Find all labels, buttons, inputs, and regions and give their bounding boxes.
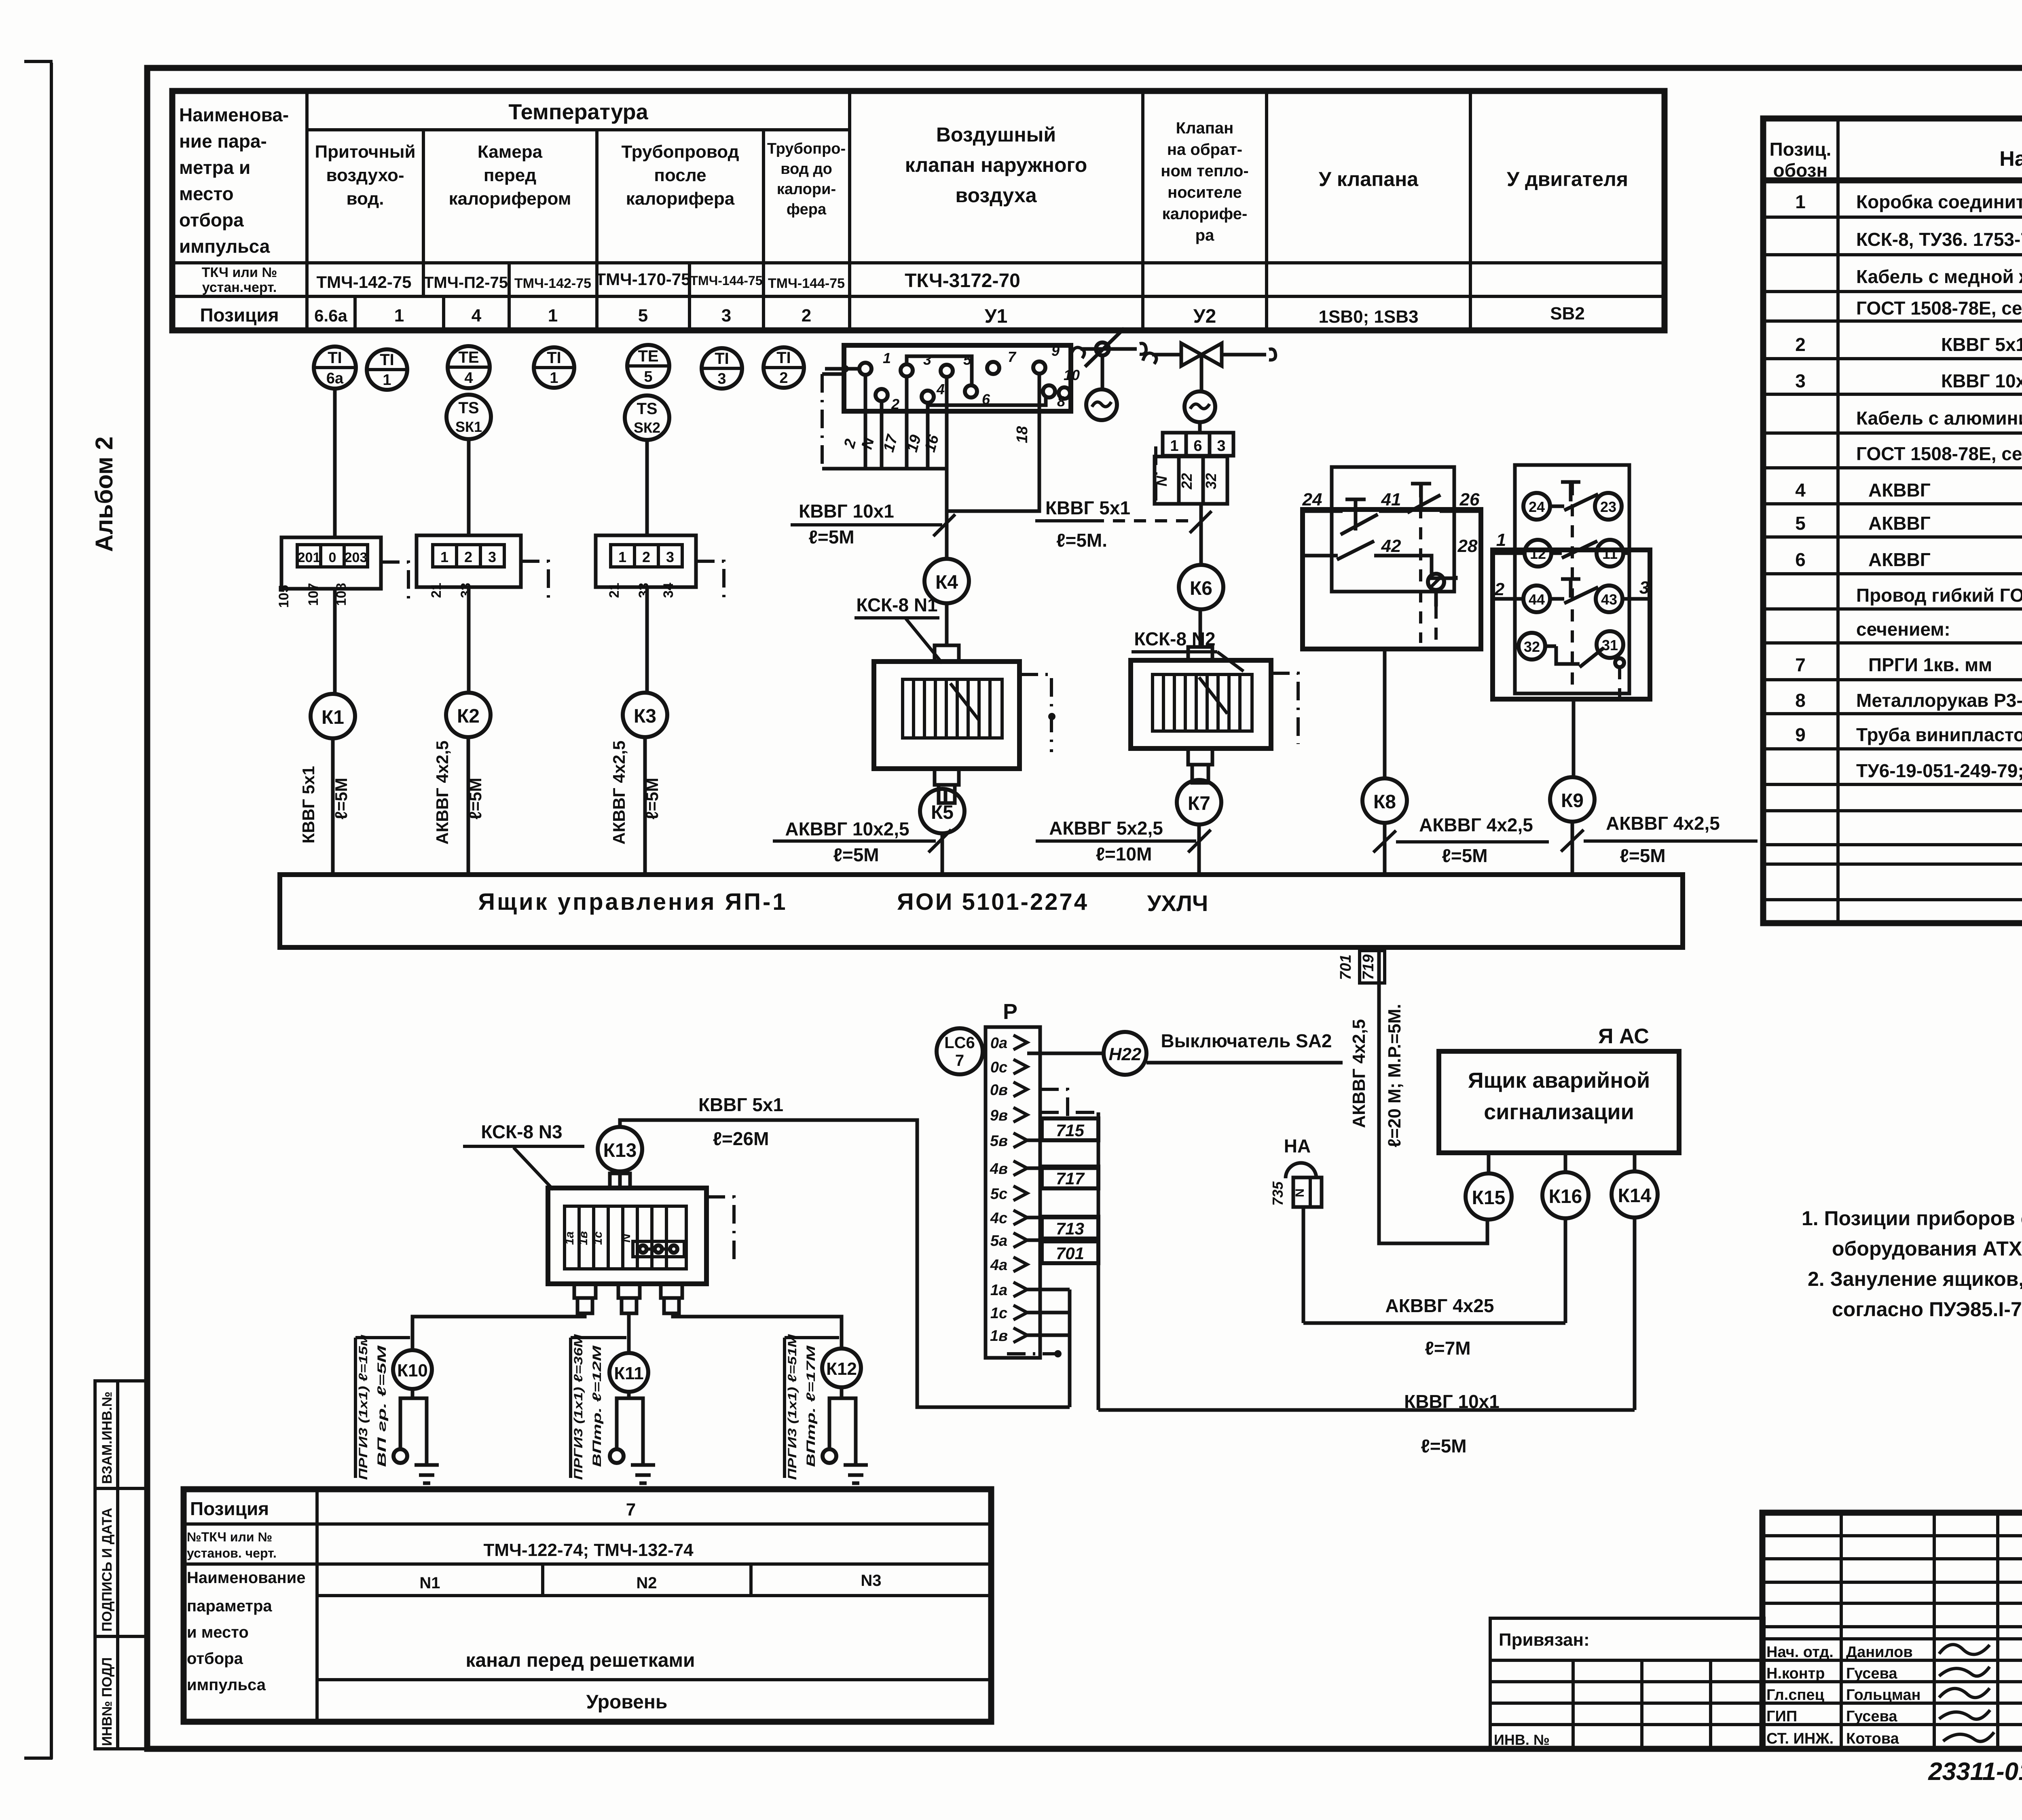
svg-text:2: 2 <box>891 396 899 412</box>
svg-text:Камера: Камера <box>478 142 543 162</box>
svg-text:ТS: ТS <box>637 400 657 418</box>
svg-text:место: место <box>179 183 234 204</box>
svg-text:9: 9 <box>1795 724 1806 745</box>
svg-text:калорифера: калорифера <box>626 189 735 209</box>
svg-text:23311-01 56: 23311-01 56 <box>1928 1758 2022 1786</box>
svg-text:на обрат-: на обрат- <box>1167 141 1242 159</box>
svg-text:5: 5 <box>638 306 648 326</box>
svg-text:АКВВГ 4х2,5: АКВВГ 4х2,5 <box>1419 814 1533 835</box>
cable flag K11 <box>571 1334 626 1480</box>
svg-text:ТЕ: ТЕ <box>458 349 479 366</box>
svg-text:Н.контр: Н.контр <box>1766 1665 1825 1682</box>
svg-text:2: 2 <box>642 549 650 565</box>
svg-text:31: 31 <box>1602 637 1618 653</box>
horn HA <box>1269 1135 1322 1323</box>
svg-text:0а: 0а <box>990 1035 1007 1052</box>
ТКЧ row bottom <box>172 295 1665 298</box>
svg-text:сигнализации: сигнализации <box>1484 1100 1634 1124</box>
svg-text:У1: У1 <box>985 306 1008 327</box>
svg-text:2: 2 <box>802 306 811 326</box>
svg-text:Наименова-: Наименова- <box>179 104 289 125</box>
svg-text:201: 201 <box>298 550 321 565</box>
wires YaAS to K15 K16 K14 <box>1489 1153 1635 1173</box>
bottom-left table <box>184 1489 991 1722</box>
svg-text:3: 3 <box>923 351 931 368</box>
wire K5 to YaP1 <box>941 833 944 875</box>
svg-text:11: 11 <box>1602 545 1618 562</box>
cable flag K10 <box>355 1334 410 1480</box>
svg-text:4с: 4с <box>990 1210 1007 1227</box>
svg-text:ИНВ. №: ИНВ. № <box>1494 1731 1550 1748</box>
позиция row dividers <box>353 296 357 330</box>
svg-text:обозн: обозн <box>1773 160 1828 181</box>
svg-text:Ящик управления ЯП-1: Ящик управления ЯП-1 <box>478 889 787 915</box>
svg-text:КСК-8 N1: КСК-8 N1 <box>856 594 937 615</box>
sensor TS-SK1 <box>446 395 491 439</box>
svg-text:3: 3 <box>488 549 496 565</box>
relay K7 <box>1177 780 1221 824</box>
svg-text:ℓ=5М: ℓ=5М <box>808 526 854 547</box>
svg-text:Труба винипластовая: Труба винипластовая <box>1856 724 2022 745</box>
svg-text:Гусева: Гусева <box>1846 1665 1897 1682</box>
wire K1 to YaP1 <box>331 738 335 875</box>
svg-text:ВПтр. ℓ=17М: ВПтр. ℓ=17М <box>804 1345 818 1467</box>
relay K16 <box>1542 1172 1588 1218</box>
svg-text:фера: фера <box>787 201 827 218</box>
svg-text:Р: Р <box>1003 1000 1017 1024</box>
bottom dashdot <box>1007 1352 1076 1355</box>
svg-text:N: N <box>620 1233 633 1243</box>
svg-text:вод.: вод. <box>347 189 384 209</box>
relay K6 <box>1179 565 1223 609</box>
svg-text:ГОСТ 1508-78Е, сечением:: ГОСТ 1508-78Е, сечением: <box>1856 298 2022 319</box>
svg-text:вод до: вод до <box>780 161 832 178</box>
relay K12 <box>822 1349 861 1387</box>
title block <box>1762 1513 2022 1749</box>
relay K11 <box>609 1353 648 1392</box>
svg-text:4в: 4в <box>990 1160 1008 1177</box>
svg-text:ТМЧ-122-74; ТМЧ-132-74: ТМЧ-122-74; ТМЧ-132-74 <box>483 1540 694 1560</box>
svg-text:7: 7 <box>955 1052 964 1070</box>
svg-text:1а: 1а <box>563 1231 576 1245</box>
paper fold edge line <box>50 63 53 1759</box>
sensor TI-1b <box>534 347 574 388</box>
wires from N3 to K10 K11 K12 <box>412 1313 585 1350</box>
sensor TI-2 <box>764 347 804 388</box>
svg-text:КВВГ 10х1: КВВГ 10х1 <box>1404 1391 1500 1412</box>
privyazan box <box>1490 1618 1764 1749</box>
svg-text:715: 715 <box>1056 1121 1085 1140</box>
top-left parameters table <box>172 91 1665 330</box>
limit switch box B <box>1493 465 1650 699</box>
svg-text:АКВВГ 4х2,5: АКВВГ 4х2,5 <box>609 740 628 844</box>
wire K3 to YaP1 <box>643 737 647 875</box>
right bus down <box>1040 1111 1098 1114</box>
damper symbol <box>1081 347 1137 351</box>
svg-text:КВВГ 5х1: КВВГ 5х1 <box>698 1094 783 1115</box>
svg-text:4а: 4а <box>990 1257 1007 1274</box>
svg-text:сечением:: сечением: <box>1856 619 1950 640</box>
sensor TS-SK2 <box>625 395 669 440</box>
svg-text:перед: перед <box>484 165 536 185</box>
svg-text:1: 1 <box>883 350 891 366</box>
svg-text:КВВГ 5х1кв. мм.: КВВГ 5х1кв. мм. <box>1941 334 2022 355</box>
svg-text:Трубопровод: Трубопровод <box>621 142 739 162</box>
svg-text:ТУ6-19-051-249-79; 40х2: ТУ6-19-051-249-79; 40х2 <box>1856 760 2022 781</box>
svg-text:1. Позиции приборов соответст: 1. Позиции приборов соответствуют специф… <box>1802 1207 2022 1230</box>
svg-text:Кабель с медной жилой,: Кабель с медной жилой, <box>1856 266 2022 287</box>
svg-text:4: 4 <box>936 381 945 397</box>
svg-text:воздуха: воздуха <box>955 184 1037 207</box>
svg-text:ТI: ТI <box>328 349 342 367</box>
svg-text:32: 32 <box>1203 473 1219 489</box>
relay K8 <box>1362 778 1407 823</box>
svg-text:КСК-8 N3: КСК-8 N3 <box>481 1121 562 1142</box>
svg-text:9: 9 <box>1051 342 1060 359</box>
svg-text:КВВГ 5х1: КВВГ 5х1 <box>1045 497 1130 518</box>
svg-text:ТМЧ-П2-75: ТМЧ-П2-75 <box>424 274 508 292</box>
cable KVVG5x1 26m route <box>620 1120 1070 1407</box>
svg-text:АКВВГ 4х2,5: АКВВГ 4х2,5 <box>1606 813 1720 834</box>
svg-text:Позиц.: Позиц. <box>1770 139 1832 160</box>
relay K9 <box>1550 777 1595 822</box>
svg-text:АКВВГ 4х25: АКВВГ 4х25 <box>1385 1295 1494 1316</box>
svg-text:6: 6 <box>1795 549 1806 570</box>
wire AKVVG4x25 7m K16 bottom left long <box>1564 1218 1567 1323</box>
svg-text:16: 16 <box>922 433 943 454</box>
svg-text:735: 735 <box>1269 1181 1286 1206</box>
relay K1 <box>311 694 355 738</box>
svg-text:К12: К12 <box>826 1359 857 1379</box>
svg-text:1SВ0; 1SВ3: 1SВ0; 1SВ3 <box>1318 307 1418 327</box>
svg-text:33: 33 <box>636 583 651 598</box>
svg-text:1с: 1с <box>591 1231 605 1245</box>
svg-text:23: 23 <box>1600 499 1616 515</box>
relay K10 <box>393 1350 432 1389</box>
температура subheader line <box>307 128 850 131</box>
verticals full height <box>305 91 309 330</box>
svg-text:Альбом 2: Альбом 2 <box>91 436 118 552</box>
svg-text:1в: 1в <box>990 1327 1008 1344</box>
bus under connector <box>822 467 947 471</box>
svg-text:Кабель с алюминиевой жилой,: Кабель с алюминиевой жилой, <box>1856 408 2022 429</box>
svg-text:N3: N3 <box>861 1572 881 1590</box>
relay K15 <box>1466 1173 1512 1220</box>
svg-text:Уровень: Уровень <box>586 1691 668 1713</box>
svg-text:КСК-8, ТУ36. 1753-75.: КСК-8, ТУ36. 1753-75. <box>1856 229 2022 250</box>
svg-text:ра: ра <box>1195 226 1214 244</box>
ТКЧ row dividers <box>422 263 425 296</box>
wire to K7 <box>1198 780 1201 783</box>
svg-text:параметра: параметра <box>187 1597 272 1615</box>
svg-text:3: 3 <box>666 549 674 565</box>
svg-text:4: 4 <box>472 306 482 326</box>
svg-text:КВВГ 5х1: КВВГ 5х1 <box>299 766 318 843</box>
svg-text:К11: К11 <box>614 1363 643 1383</box>
svg-text:21: 21 <box>607 583 622 598</box>
svg-text:2: 2 <box>841 437 859 450</box>
svg-text:LС6: LС6 <box>944 1034 975 1052</box>
svg-text:18: 18 <box>1014 426 1031 443</box>
svg-text:ГИП: ГИП <box>1766 1708 1797 1725</box>
wire box3-K3 <box>645 587 649 693</box>
svg-text:ℓ=5М: ℓ=5М <box>466 778 485 819</box>
svg-text:Коробка соединительная: Коробка соединительная <box>1856 191 2022 212</box>
signatures squiggles <box>1939 1645 1994 1742</box>
svg-text:ТМЧ-142-75: ТМЧ-142-75 <box>514 276 591 291</box>
svg-text:носителе: носителе <box>1168 184 1242 201</box>
svg-text:107: 107 <box>306 583 321 606</box>
svg-text:АКВВГ 4х2,5: АКВВГ 4х2,5 <box>1349 1019 1369 1128</box>
svg-text:1: 1 <box>383 372 391 389</box>
svg-text:импульса: импульса <box>187 1676 266 1694</box>
svg-text:ГОСТ 1508-78Е, сечением:: ГОСТ 1508-78Е, сечением: <box>1856 443 2022 464</box>
svg-text:К9: К9 <box>1561 790 1584 812</box>
pins <box>990 1035 1008 1344</box>
svg-text:N: N <box>1293 1188 1307 1197</box>
relay K3 <box>623 693 667 737</box>
svg-text:3: 3 <box>721 306 731 326</box>
wire bottom bus KVVG10x1 <box>1098 1408 1635 1412</box>
svg-text:К1: К1 <box>321 707 344 728</box>
svg-text:ℓ=5М: ℓ=5М <box>1442 845 1487 866</box>
svg-text:6.6а: 6.6а <box>314 306 347 325</box>
svg-text:0: 0 <box>329 550 336 565</box>
svg-text:отбора: отбора <box>179 209 244 230</box>
svg-text:1а: 1а <box>990 1282 1007 1299</box>
wire boxB to K9 <box>1572 699 1576 777</box>
wire box1-K1 <box>333 589 337 694</box>
svg-text:ТМЧ-142-75: ТМЧ-142-75 <box>317 273 412 292</box>
svg-text:Гусева: Гусева <box>1846 1708 1897 1725</box>
svg-text:44: 44 <box>1529 591 1545 608</box>
svg-text:26: 26 <box>1459 490 1480 509</box>
svg-text:АКВВГ 4х2,5: АКВВГ 4х2,5 <box>433 740 452 844</box>
sensor TE-5 <box>627 345 669 387</box>
svg-text:Клапан: Клапан <box>1176 119 1234 137</box>
svg-text:К2: К2 <box>457 706 480 727</box>
svg-text:Температура: Температура <box>508 100 648 124</box>
svg-text:24: 24 <box>1529 499 1545 515</box>
svg-text:1: 1 <box>1170 438 1178 454</box>
svg-text:ℓ=20 М; М.Р.=5М.: ℓ=20 М; М.Р.=5М. <box>1385 1004 1404 1148</box>
svg-text:0в: 0в <box>990 1082 1008 1099</box>
svg-text:ПРГИ3 (1х1) ℓ=36М: ПРГИ3 (1х1) ℓ=36М <box>572 1334 585 1480</box>
svg-text:К4: К4 <box>935 572 958 593</box>
KSK-8 N1 box <box>874 645 1055 803</box>
svg-text:9в: 9в <box>990 1107 1008 1124</box>
svg-text:ℓ=5М: ℓ=5М <box>1421 1435 1466 1456</box>
svg-text:ПРГИ 1кв. мм: ПРГИ 1кв. мм <box>1868 654 1992 675</box>
svg-text:7: 7 <box>1795 654 1806 675</box>
actuator Y1 circle <box>1086 389 1117 420</box>
svg-text:203: 203 <box>345 550 368 565</box>
svg-text:7: 7 <box>1008 349 1017 365</box>
svg-text:АКВВГ 10х2,5: АКВВГ 10х2,5 <box>785 818 909 839</box>
pin wires down from connector <box>864 375 867 469</box>
svg-text:701: 701 <box>1337 954 1354 980</box>
terminal box 163 <box>1153 422 1233 504</box>
wire TI-6a to box1 <box>333 389 337 537</box>
svg-text:К8: К8 <box>1373 791 1396 813</box>
svg-text:воздухо-: воздухо- <box>326 165 404 185</box>
svg-text:8: 8 <box>1057 393 1065 410</box>
svg-text:2: 2 <box>464 549 472 565</box>
svg-text:2: 2 <box>1795 334 1806 355</box>
svg-text:№ТКЧ или №: №ТКЧ или № <box>187 1530 272 1544</box>
LC6 bubble <box>937 1028 983 1074</box>
svg-text:УХЛЧ: УХЛЧ <box>1147 890 1208 916</box>
svg-text:Котова: Котова <box>1846 1730 1899 1747</box>
svg-text:метра и: метра и <box>179 157 250 178</box>
svg-text:Воздушный: Воздушный <box>936 123 1056 146</box>
electrode and ground under K10 <box>393 1389 439 1483</box>
wire AKVVG4x25 HA to K16 <box>1303 1218 1565 1323</box>
svg-text:ТКЧ или №: ТКЧ или № <box>202 265 277 280</box>
sensor TI-3 <box>702 348 742 389</box>
svg-text:105: 105 <box>276 585 292 608</box>
svg-text:и место: и место <box>187 1623 249 1641</box>
wire K9 to YaP1 <box>1571 822 1574 875</box>
svg-text:3: 3 <box>1795 370 1806 391</box>
alarm box YaAS <box>1439 1025 1679 1153</box>
valve symbol <box>1152 353 1266 357</box>
svg-text:клапан наружного: клапан наружного <box>905 154 1087 176</box>
svg-text:К16: К16 <box>1549 1186 1582 1207</box>
svg-text:отбора: отбора <box>187 1650 243 1668</box>
svg-text:0с: 0с <box>990 1059 1007 1076</box>
svg-text:ТМЧ-170-75: ТМЧ-170-75 <box>596 270 691 289</box>
sensor TI-1 <box>367 349 407 390</box>
svg-text:1в: 1в <box>577 1231 590 1245</box>
svg-text:1: 1 <box>394 306 404 326</box>
svg-text:Позиция: Позиция <box>200 304 279 326</box>
svg-text:согласно ПУЭ85.I-7-46: согласно ПУЭ85.I-7-46 <box>1832 1298 2022 1321</box>
svg-text:К14: К14 <box>1618 1185 1652 1207</box>
svg-text:33: 33 <box>458 583 474 598</box>
svg-text:717: 717 <box>1056 1169 1085 1188</box>
svg-text:ЯОИ 5101-2274: ЯОИ 5101-2274 <box>897 889 1089 915</box>
svg-text:22: 22 <box>1178 473 1195 490</box>
wires with number tags to bus <box>1027 1139 1098 1142</box>
svg-text:Н22: Н22 <box>1109 1044 1142 1064</box>
svg-text:12: 12 <box>1530 545 1546 562</box>
svg-text:28: 28 <box>1457 536 1478 556</box>
svg-text:Я АС: Я АС <box>1598 1025 1649 1048</box>
svg-text:Привязан:: Привязан: <box>1499 1630 1590 1650</box>
svg-text:8: 8 <box>1795 690 1806 711</box>
svg-text:3: 3 <box>1217 438 1225 454</box>
connector P assembly <box>937 1000 1343 1410</box>
svg-text:ние пара-: ние пара- <box>179 131 267 152</box>
svg-text:ТI: ТI <box>547 349 561 367</box>
svg-text:Нач. отд.: Нач. отд. <box>1766 1644 1834 1661</box>
svg-text:АКВВГ 5х2,5: АКВВГ 5х2,5 <box>1049 818 1163 839</box>
header bottom <box>172 261 1665 264</box>
svg-text:АКВВГ: АКВВГ <box>1868 513 1931 534</box>
svg-text:7: 7 <box>626 1500 636 1520</box>
svg-text:ℓ=26М: ℓ=26М <box>713 1128 769 1149</box>
svg-text:ВП гр. ℓ=5М: ВП гр. ℓ=5М <box>375 1345 389 1467</box>
svg-text:701: 701 <box>1056 1244 1084 1263</box>
svg-text:N2: N2 <box>636 1574 657 1592</box>
svg-text:ИНВ№ ПОДЛ: ИНВ№ ПОДЛ <box>99 1657 115 1746</box>
svg-text:2: 2 <box>779 370 788 387</box>
wire 163 box to K6 <box>1199 504 1203 565</box>
svg-text:ℓ=7М: ℓ=7М <box>1425 1338 1470 1359</box>
svg-text:ПРГИ3 (1х1) ℓ=51М: ПРГИ3 (1х1) ℓ=51М <box>786 1334 799 1480</box>
svg-text:32: 32 <box>1524 638 1540 655</box>
svg-text:ПРГИ3 (1х1) ℓ=15м: ПРГИ3 (1х1) ℓ=15м <box>357 1334 370 1480</box>
wire K4 to KSK N1 <box>945 603 949 645</box>
svg-text:10: 10 <box>1064 367 1080 383</box>
left columns grid <box>1840 1513 1843 1749</box>
svg-text:ℓ=5М: ℓ=5М <box>833 844 879 865</box>
pins 1a 1c 1v to right vertical <box>1027 1289 1070 1407</box>
svg-text:2: 2 <box>1494 579 1505 599</box>
svg-text:У двигателя: У двигателя <box>1507 168 1628 190</box>
svg-text:1: 1 <box>618 549 626 565</box>
svg-text:34: 34 <box>661 583 676 598</box>
wire YaP1 to 701/719 down <box>1379 947 1487 1243</box>
svg-text:К15: К15 <box>1472 1187 1506 1209</box>
svg-text:Приточный: Приточный <box>315 142 415 162</box>
electrode and ground under K11 <box>610 1392 655 1483</box>
svg-text:719: 719 <box>1360 954 1377 980</box>
svg-text:ТI: ТI <box>776 349 791 367</box>
svg-text:ℓ=5М: ℓ=5М <box>332 778 351 819</box>
svg-text:К10: К10 <box>397 1361 428 1380</box>
svg-text:4: 4 <box>1795 480 1806 501</box>
svg-text:N: N <box>859 435 878 451</box>
cable flag K12 <box>785 1334 839 1480</box>
svg-text:ном тепло-: ном тепло- <box>1161 162 1248 180</box>
svg-text:Трубопро-: Трубопро- <box>767 140 846 157</box>
svg-text:калорифером: калорифером <box>449 189 571 209</box>
svg-text:5с: 5с <box>990 1186 1007 1203</box>
svg-text:калори-: калори- <box>777 181 836 198</box>
svg-text:5: 5 <box>1795 513 1806 534</box>
svg-text:Выключатель SА2: Выключатель SА2 <box>1161 1030 1332 1051</box>
svg-text:ℓ=5М: ℓ=5М <box>1620 845 1665 866</box>
svg-text:ТМЧ-144-75: ТМЧ-144-75 <box>690 273 763 288</box>
svg-text:ТI: ТI <box>715 350 729 368</box>
svg-text:713: 713 <box>1056 1219 1084 1238</box>
svg-text:после: после <box>654 165 706 185</box>
svg-text:устан.черт.: устан.черт. <box>202 280 277 295</box>
terminal box 2 <box>417 535 548 598</box>
svg-text:Наименование: Наименование <box>1999 147 2022 171</box>
wire to K5 <box>944 789 948 803</box>
svg-text:АКВВГ: АКВВГ <box>1868 480 1931 501</box>
svg-text:К13: К13 <box>603 1140 637 1161</box>
svg-text:21: 21 <box>429 583 444 598</box>
svg-text:ТI: ТI <box>380 351 394 369</box>
relay K14 <box>1612 1171 1658 1218</box>
svg-text:канал перед решетками: канал перед решетками <box>465 1650 695 1671</box>
svg-text:1: 1 <box>548 306 558 326</box>
notes text <box>1802 1207 2022 1321</box>
svg-text:SК1: SК1 <box>455 419 482 435</box>
svg-text:ТЕ: ТЕ <box>638 347 658 365</box>
right specification table <box>1763 118 2022 923</box>
svg-text:5: 5 <box>644 368 652 385</box>
svg-text:N1: N1 <box>419 1574 440 1592</box>
wire K6 to KSK N2 <box>1199 609 1202 647</box>
svg-text:4: 4 <box>464 370 473 387</box>
svg-text:Металлорукав Р3-Ц-Х29: Металлорукав Р3-Ц-Х29 <box>1856 690 2022 711</box>
svg-text:SК2: SК2 <box>634 419 660 436</box>
